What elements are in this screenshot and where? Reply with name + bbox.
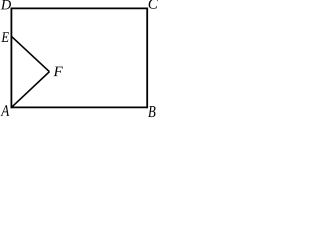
side DA (left edge of rectangle) (10, 8, 12, 109)
label B (bottom-right vertex) (148, 106, 155, 117)
geometry diagram: rectangle ABCD with fold triangle AEF (0, 0, 158, 118)
label F (fold vertex) (54, 67, 63, 76)
side DC (top edge of rectangle) (11, 7, 147, 9)
segment EF (fold crease from E to F) (11, 36, 49, 71)
side CB (right edge of rectangle) (146, 8, 148, 109)
segment FA (fold crease from F to A) (11, 72, 49, 108)
label D (top-left vertex) (1, 0, 11, 9)
label A (bottom-left vertex) (1, 105, 10, 116)
label C (top-right vertex) (149, 0, 158, 9)
label E (point on side DA) (1, 32, 9, 42)
side AB (bottom edge of rectangle) (11, 106, 147, 108)
